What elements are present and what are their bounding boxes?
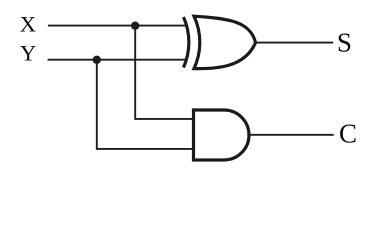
wire X input to XOR	[48, 25, 187, 27]
AND gate U2 body	[194, 110, 249, 160]
wire Y branch down to AND bottom input	[97, 60, 194, 149]
wire Y input to XOR	[48, 59, 187, 61]
svg-text:X: X	[20, 12, 36, 37]
XOR gate U1 input arc	[184, 17, 189, 68]
svg-text:C: C	[339, 119, 357, 149]
wire X branch down to AND top input	[135, 26, 193, 119]
wire XOR output to S	[255, 42, 333, 44]
junction dot on X wire	[131, 22, 139, 30]
XOR gate U1 body	[194, 16, 256, 68]
svg-text:S: S	[337, 28, 352, 58]
junction dot on Y wire	[93, 56, 101, 64]
wire AND output to C	[249, 134, 334, 136]
svg-text:Y: Y	[20, 41, 36, 66]
